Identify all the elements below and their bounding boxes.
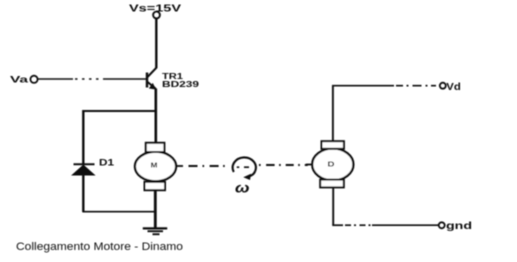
transistor Q TR1	[147, 68, 157, 90]
shaft coupling dash-dot left	[189, 165, 225, 167]
svg-text:Va: Va	[10, 75, 30, 85]
shaft stub motor	[176, 165, 183, 167]
svg-text:Collegamento Motore - Dinamo: Collegamento Motore - Dinamo	[16, 241, 183, 253]
motor M body	[135, 152, 176, 182]
svg-text:D1: D1	[99, 158, 114, 168]
svg-text:ω: ω	[235, 180, 250, 196]
wire dynamo bottom horizontal dashed	[345, 224, 371, 226]
wire dynamo bottom horizontal solid right	[372, 224, 439, 226]
motor M bottom brush	[145, 182, 166, 190]
svg-text:BD239: BD239	[162, 80, 200, 89]
wire motor to ground	[154, 190, 157, 228]
terminal Va	[30, 76, 37, 83]
diode D1	[72, 164, 94, 175]
shaft coupling dash-dot right	[259, 164, 308, 166]
wire dynamo top vertical	[332, 86, 334, 142]
wire left branch lower vertical	[82, 175, 84, 212]
svg-text:M: M	[151, 162, 158, 169]
dynamo D bottom brush	[320, 180, 344, 188]
wire emitter to motor	[155, 89, 158, 144]
wire left branch bottom horizontal	[83, 211, 156, 213]
wire base segment dotted middle	[75, 78, 103, 80]
dynamo D top brush	[322, 141, 344, 149]
svg-text:Vd: Vd	[446, 81, 461, 93]
wire dynamo top horizontal dashed	[396, 85, 436, 87]
terminal gnd	[439, 222, 445, 228]
shaft stub dynamo	[306, 164, 313, 166]
wire dynamo bottom horizontal solid left	[332, 224, 343, 226]
dynamo D body	[312, 149, 353, 181]
wire base segment solid right	[103, 78, 146, 80]
wire left branch top horizontal	[83, 110, 157, 112]
wire dynamo bottom vertical	[332, 187, 334, 225]
svg-text:D: D	[328, 162, 335, 169]
svg-text:gnd: gnd	[446, 220, 472, 232]
terminal Vd	[440, 83, 446, 89]
wire base segment solid left	[38, 78, 73, 80]
motor M top brush	[146, 143, 165, 152]
terminal Vs	[153, 12, 160, 19]
ground	[143, 228, 167, 234]
wire collector supply	[155, 19, 157, 69]
wire dynamo top horizontal solid	[332, 85, 394, 87]
rotation symbol	[233, 157, 256, 180]
wire left branch upper vertical	[82, 110, 84, 164]
